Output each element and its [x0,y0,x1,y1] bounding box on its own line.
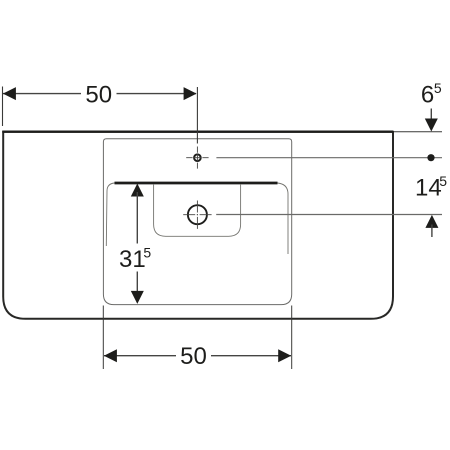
top dimension 50: left arrow [3,87,16,100]
bowl left wall [106,183,114,246]
svg-text:14: 14 [415,175,442,202]
top dimension 50: right arrow [184,87,197,100]
svg-text:5: 5 [143,244,151,260]
bottom dimension 50: left arrow [104,349,117,362]
top dimension 50: right extension line to faucet [196,87,198,144]
bowl depth dimension 31.5: value label [119,244,151,273]
washbasin outer outline [3,132,393,319]
bottom dimension 50: dimension line [104,355,291,357]
bottom dimension 50: right arrow [278,349,291,362]
faucet hole circle [194,154,201,161]
washbasin back (top) edge thick line [2,130,393,132]
bowl depth dimension 31.5: up arrow with stem [131,184,144,244]
bowl right wall [278,183,289,254]
faucet hole crosshair vertical [196,147,198,169]
bottom dimension 50: right extension line [291,306,293,370]
bowl back edge thick line [115,182,278,185]
drain hole crosshair horizontal [183,214,211,216]
bottom dimension 50: value label [180,343,207,370]
svg-text:6: 6 [421,82,434,109]
top dimension 50: value label [85,82,112,109]
faucet hole crosshair horizontal [186,157,208,159]
bowl bottom shelf outline [154,184,241,236]
top dimension 50: dimension line [3,93,196,95]
svg-text:50: 50 [85,82,112,109]
basin rim rectangle [103,139,291,305]
svg-text:5: 5 [434,80,442,96]
drain hole circle [188,205,207,224]
right dimension 6.5: down arrow with stem [425,109,438,132]
top dimension 50: left extension line [2,87,4,127]
right dimension 14.5: value label [415,173,447,202]
right dimension 6.5: value label [421,80,442,109]
drain hole crosshair vertical [196,201,198,229]
svg-text:31: 31 [119,246,146,273]
svg-text:50: 50 [180,343,207,370]
right dimension 6.5: extension line at basin edge [394,131,442,133]
bottom dimension 50: left extension line [102,306,104,370]
drain leader line [216,214,442,216]
faucet leader line [216,157,442,159]
svg-text:5: 5 [439,173,447,189]
right dimension 14.5: up arrow with stem [425,215,438,237]
right dimension 6.5/14.5: dot terminator on faucet line [427,154,434,161]
bowl depth dimension 31.5: down arrow with stem [131,272,144,304]
